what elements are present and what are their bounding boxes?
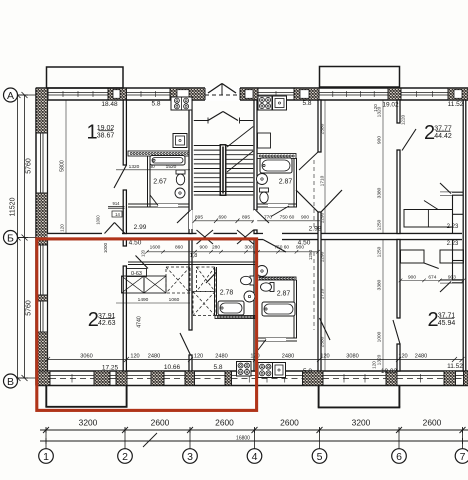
svg-text:2580: 2580	[320, 336, 326, 347]
svg-text:5.8: 5.8	[302, 100, 311, 107]
svg-text:5.8: 5.8	[151, 100, 160, 107]
svg-text:1000: 1000	[96, 215, 101, 225]
svg-text:45.94: 45.94	[438, 320, 456, 327]
svg-text:10.66: 10.66	[164, 364, 181, 371]
svg-text:1320: 1320	[377, 106, 383, 117]
svg-text:860: 860	[175, 245, 183, 251]
svg-text:1250: 1250	[377, 246, 383, 257]
svg-text:1710: 1710	[320, 288, 326, 299]
svg-text:2: 2	[122, 451, 128, 463]
svg-text:2600: 2600	[151, 418, 170, 428]
svg-text:120: 120	[372, 361, 377, 369]
svg-text:3200: 3200	[352, 418, 371, 428]
svg-text:3380: 3380	[377, 187, 383, 198]
svg-text:1320: 1320	[377, 354, 383, 365]
svg-text:770: 770	[264, 214, 272, 220]
svg-text:2600: 2600	[280, 418, 299, 428]
svg-text:300: 300	[244, 245, 252, 251]
svg-text:895: 895	[195, 214, 203, 220]
svg-text:19.02: 19.02	[381, 368, 398, 375]
svg-text:3080: 3080	[346, 354, 358, 360]
svg-text:11.52: 11.52	[447, 363, 463, 370]
svg-text:3200: 3200	[79, 418, 98, 428]
svg-text:120: 120	[141, 249, 146, 257]
svg-text:4740: 4740	[137, 316, 143, 328]
svg-text:1000: 1000	[103, 242, 108, 253]
svg-text:5760: 5760	[26, 300, 33, 316]
svg-text:11.52: 11.52	[448, 101, 464, 108]
svg-text:900: 900	[296, 245, 304, 251]
svg-text:2.23: 2.23	[447, 241, 459, 247]
svg-text:674: 674	[428, 274, 436, 280]
svg-text:900: 900	[301, 214, 309, 220]
svg-text:Б: Б	[7, 232, 14, 244]
svg-text:1600: 1600	[150, 245, 161, 251]
svg-text:5.8: 5.8	[213, 364, 222, 371]
svg-text:1000: 1000	[377, 331, 383, 342]
svg-text:120: 120	[60, 224, 65, 232]
svg-text:2.23: 2.23	[447, 224, 459, 230]
svg-text:16800: 16800	[236, 436, 250, 442]
svg-text:2.98: 2.98	[309, 226, 322, 233]
svg-text:690: 690	[218, 214, 226, 220]
svg-text:900: 900	[408, 274, 416, 280]
svg-text:2.67: 2.67	[153, 179, 167, 186]
svg-text:7: 7	[460, 451, 466, 463]
svg-text:1060: 1060	[169, 297, 180, 303]
svg-text:1710: 1710	[320, 175, 326, 186]
svg-text:1290: 1290	[320, 251, 326, 262]
svg-text:5760: 5760	[26, 158, 33, 174]
svg-text:44.42: 44.42	[434, 133, 452, 140]
svg-text:1220: 1220	[401, 114, 406, 125]
svg-text:6: 6	[396, 451, 402, 463]
svg-text:2480: 2480	[215, 354, 227, 360]
svg-text:2480: 2480	[282, 354, 294, 360]
svg-text:750 60: 750 60	[274, 245, 289, 251]
svg-text:1520: 1520	[166, 164, 177, 170]
svg-text:2.87: 2.87	[277, 291, 291, 298]
svg-text:120: 120	[194, 354, 203, 360]
svg-text:18.48: 18.48	[101, 101, 118, 108]
svg-text:1250: 1250	[377, 219, 383, 230]
svg-text:280: 280	[212, 245, 220, 251]
svg-text:3: 3	[187, 451, 193, 463]
svg-text:5800: 5800	[60, 160, 66, 172]
svg-text:900: 900	[377, 136, 383, 144]
svg-text:19.02: 19.02	[382, 101, 399, 108]
svg-text:42.63: 42.63	[98, 320, 116, 327]
svg-text:1: 1	[43, 451, 49, 463]
svg-text:4: 4	[252, 451, 258, 463]
svg-text:80: 80	[149, 164, 155, 170]
svg-text:17.25: 17.25	[102, 364, 119, 371]
svg-text:38.67: 38.67	[97, 132, 115, 139]
svg-text:750 60: 750 60	[280, 214, 295, 220]
svg-text:2480: 2480	[415, 354, 427, 360]
svg-text:11520: 11520	[10, 197, 17, 216]
svg-text:А: А	[7, 90, 14, 102]
svg-text:900: 900	[199, 245, 207, 251]
svg-text:2480: 2480	[148, 354, 160, 360]
svg-text:2.87: 2.87	[279, 179, 293, 186]
svg-text:120: 120	[398, 354, 407, 360]
svg-text:120: 120	[130, 354, 139, 360]
svg-text:2.78: 2.78	[220, 290, 234, 297]
svg-text:2600: 2600	[215, 418, 234, 428]
svg-text:2580: 2580	[320, 123, 326, 134]
svg-text:5: 5	[317, 451, 323, 463]
svg-text:1320: 1320	[129, 164, 140, 170]
svg-text:903: 903	[448, 274, 456, 280]
svg-text:3380: 3380	[377, 279, 383, 290]
svg-text:14: 14	[115, 212, 120, 217]
svg-text:914: 914	[113, 201, 121, 206]
svg-text:120: 120	[250, 354, 259, 360]
svg-text:1290: 1290	[320, 212, 326, 223]
svg-text:2.99: 2.99	[134, 224, 147, 231]
svg-text:4.50: 4.50	[129, 240, 142, 247]
svg-text:895: 895	[242, 214, 250, 220]
svg-text:1490: 1490	[138, 297, 149, 303]
svg-text:2600: 2600	[423, 418, 442, 428]
svg-text:5.8: 5.8	[303, 368, 312, 375]
svg-text:3060: 3060	[80, 354, 92, 360]
svg-text:В: В	[7, 376, 14, 388]
svg-text:1,8: 1,8	[190, 253, 198, 259]
svg-text:1250: 1250	[308, 249, 313, 260]
